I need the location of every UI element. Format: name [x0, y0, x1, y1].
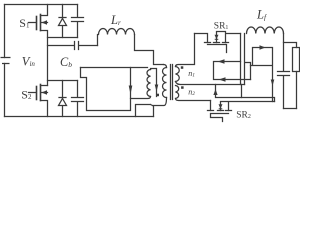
svg-text:Lr: Lr: [110, 13, 121, 27]
svg-text:S2: S2: [21, 88, 32, 102]
svg-text:Vin: Vin: [22, 55, 36, 69]
svg-text:SR2: SR2: [236, 110, 251, 120]
svg-text:SR1: SR1: [214, 21, 229, 31]
svg-text:n2: n2: [188, 88, 195, 98]
svg-text:Lf: Lf: [256, 7, 267, 21]
svg-text:Cb: Cb: [60, 55, 72, 69]
svg-text:S1: S1: [19, 16, 30, 30]
svg-text:n1: n1: [188, 69, 195, 79]
